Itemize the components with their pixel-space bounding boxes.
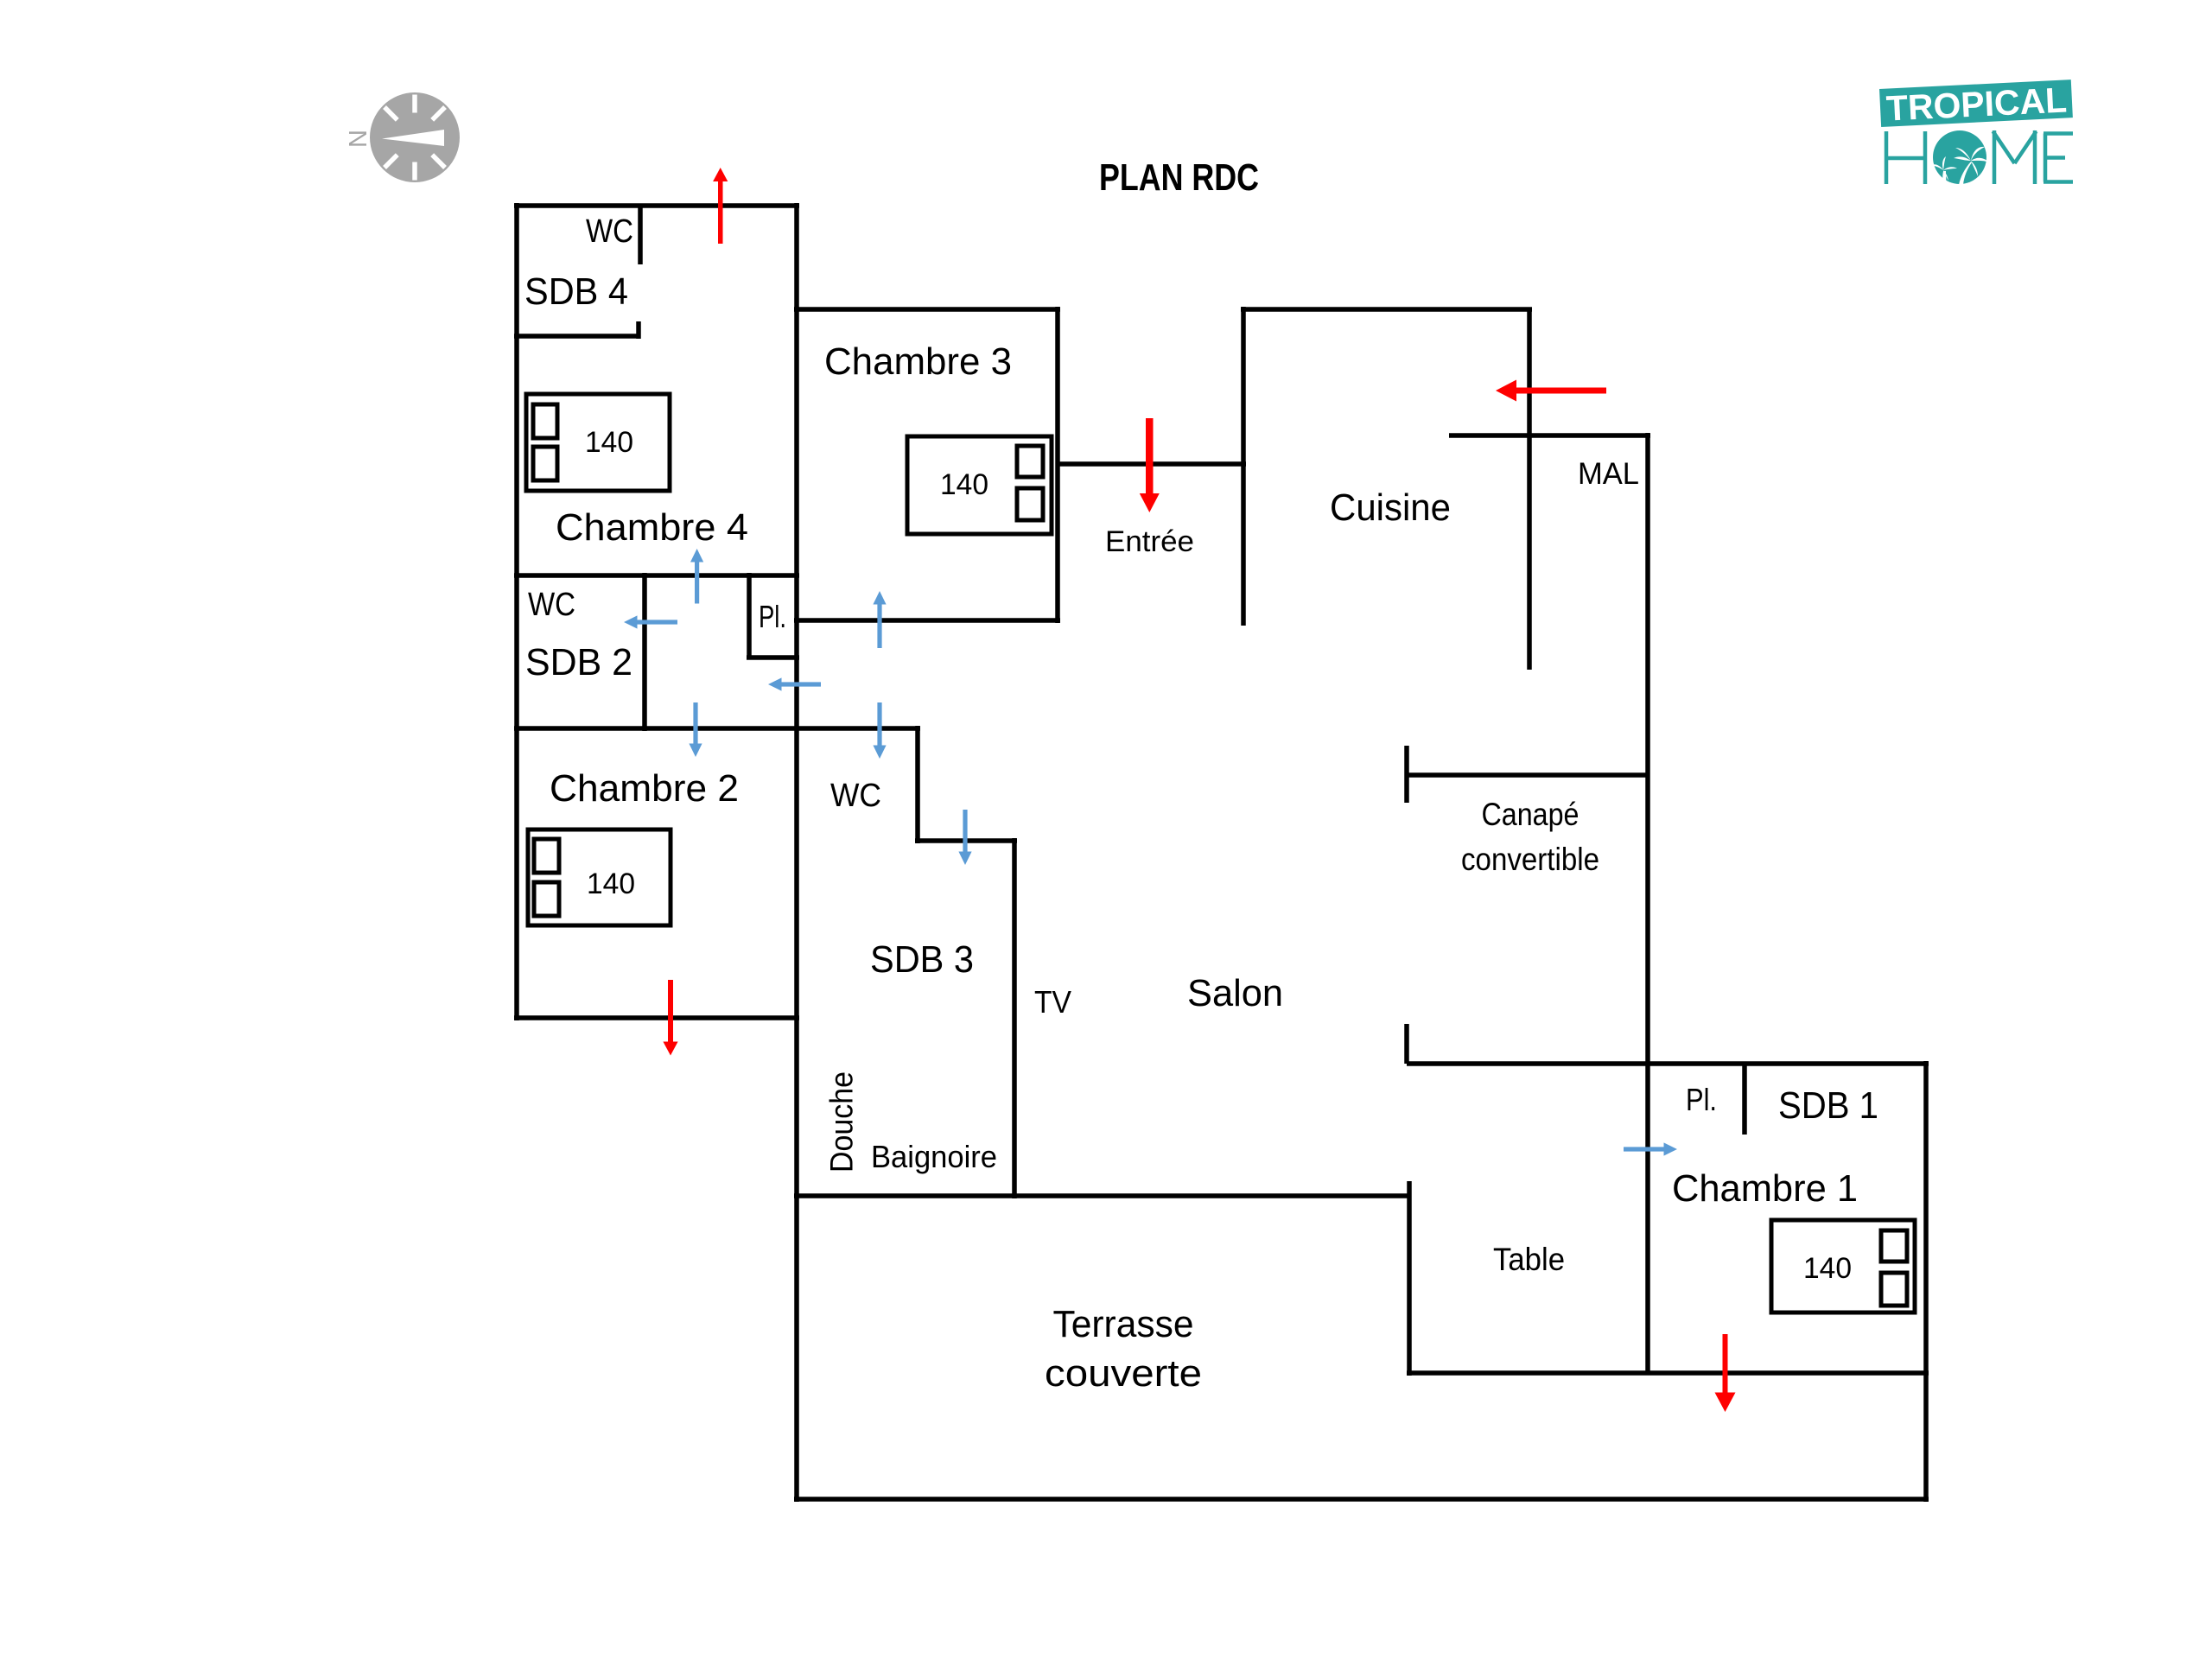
svg-text:Canapé: Canapé [1482, 797, 1580, 832]
svg-text:Cuisine: Cuisine [1330, 486, 1451, 529]
svg-text:WC: WC [528, 587, 575, 623]
svg-text:N: N [345, 130, 372, 148]
svg-text:140: 140 [940, 468, 988, 501]
svg-text:TV: TV [1034, 984, 1071, 1020]
svg-text:140: 140 [585, 426, 633, 459]
svg-text:WC: WC [586, 213, 633, 250]
svg-text:SDB 3: SDB 3 [870, 938, 974, 981]
svg-text:Baignoire: Baignoire [871, 1139, 997, 1174]
svg-text:WC: WC [830, 778, 881, 814]
svg-text:SDB 2: SDB 2 [525, 641, 632, 683]
svg-text:couverte: couverte [1045, 1352, 1202, 1395]
svg-text:convertible: convertible [1461, 842, 1599, 877]
svg-text:Terrasse: Terrasse [1053, 1303, 1194, 1345]
svg-text:Chambre 2: Chambre 2 [550, 767, 739, 810]
svg-text:Table: Table [1493, 1242, 1565, 1277]
svg-text:Pl.: Pl. [759, 599, 786, 634]
svg-text:PLAN RDC: PLAN RDC [1099, 156, 1259, 199]
svg-text:Chambre 1: Chambre 1 [1672, 1167, 1858, 1210]
svg-text:Chambre 3: Chambre 3 [824, 340, 1012, 383]
svg-text:SDB 1: SDB 1 [1778, 1084, 1878, 1127]
svg-text:SDB 4: SDB 4 [524, 270, 628, 313]
svg-text:140: 140 [587, 868, 635, 900]
svg-text:140: 140 [1803, 1252, 1852, 1285]
svg-text:Douche: Douche [824, 1071, 860, 1173]
svg-text:Entrée: Entrée [1105, 525, 1194, 558]
svg-text:Pl.: Pl. [1686, 1082, 1717, 1117]
svg-text:Salon: Salon [1187, 972, 1283, 1014]
svg-text:MAL: MAL [1578, 457, 1639, 491]
svg-text:Chambre 4: Chambre 4 [556, 506, 748, 549]
